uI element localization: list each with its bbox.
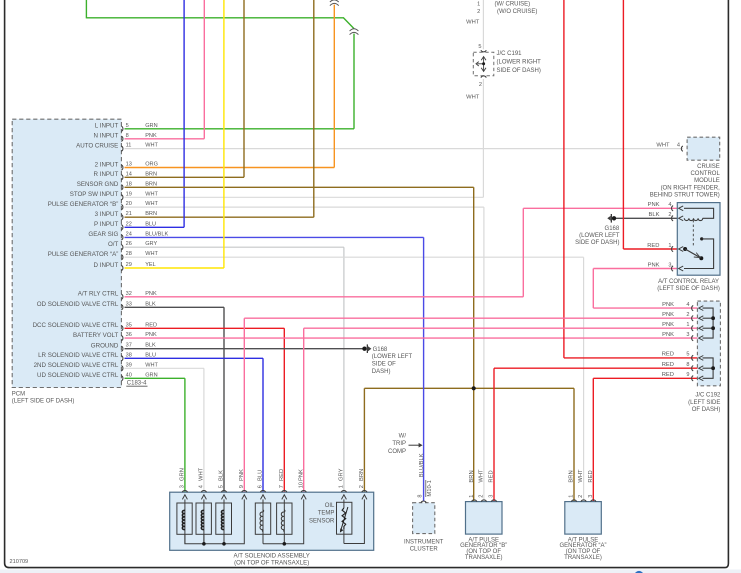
svg-text:O/T: O/T [108, 241, 119, 248]
svg-text:GRN: GRN [145, 372, 157, 378]
svg-text:4: 4 [668, 202, 671, 208]
instrument cluster label [404, 540, 444, 553]
svg-text:DASH): DASH) [372, 369, 391, 375]
wire PNK pin8 net (from top of page) [125, 0, 205, 139]
svg-text:5: 5 [686, 352, 689, 358]
svg-text:21: 21 [126, 211, 132, 217]
svg-text:BLK: BLK [145, 301, 156, 307]
svg-text:(LOWER LEFT: (LOWER LEFT [372, 354, 413, 360]
svg-text:33: 33 [126, 301, 132, 307]
svg-text:PNK: PNK [648, 202, 660, 208]
svg-text:2: 2 [479, 82, 482, 88]
svg-text:2: 2 [477, 9, 480, 15]
svg-text:19: 19 [126, 191, 132, 197]
solenoid assembly pin 7 RED [279, 469, 287, 500]
svg-text:1: 1 [668, 243, 671, 249]
svg-text:1: 1 [469, 495, 475, 498]
svg-text:PNK: PNK [145, 133, 157, 139]
J/C C192 pin 4 PNK [662, 302, 703, 311]
blue dot bottom edge [634, 571, 643, 573]
wire PNK J/C C192 pin1 to solenoid assembly pin10 [304, 328, 698, 491]
svg-text:1: 1 [477, 1, 480, 7]
svg-text:BLU: BLU [145, 352, 156, 358]
relay switch armature [683, 247, 703, 260]
svg-text:BEHIND STRUT TOWER): BEHIND STRUT TOWER) [650, 192, 720, 198]
solenoid assembly pin 10 PNK [298, 469, 306, 499]
cruise control module box [687, 137, 720, 160]
solenoid coil 1 (dark winding) [177, 499, 192, 543]
diagram number label 210709 [10, 559, 29, 565]
A/T pulse generator A box [565, 502, 602, 534]
pulse generator B pin 3 RED [489, 470, 497, 501]
svg-text:BRN: BRN [145, 171, 157, 177]
junction dot BRN sensor-ground [472, 386, 476, 390]
wire WHT pin28 net (to pulse generator A pin2) [125, 257, 584, 501]
PCM pin 40 UD SOLENOID VALVE CTRL [37, 372, 158, 381]
wire GRN pin40 net (to solenoid assembly pin3) [125, 378, 185, 491]
wire BRN pin18 sensor-ground net [125, 187, 575, 501]
svg-text:PNK: PNK [662, 322, 674, 328]
svg-text:37: 37 [126, 343, 132, 349]
svg-text:14: 14 [126, 171, 132, 177]
svg-text:RED: RED [279, 469, 285, 481]
svg-text:BLK: BLK [649, 212, 660, 218]
svg-text:4: 4 [686, 302, 689, 308]
svg-text:20: 20 [126, 201, 132, 207]
oil temp sensor label [309, 503, 335, 525]
svg-text:(LOWER LEFT: (LOWER LEFT [579, 233, 620, 239]
svg-text:PULSE GENERATOR “B”: PULSE GENERATOR “B” [48, 201, 119, 208]
svg-text:32: 32 [126, 291, 132, 297]
wire WHT pin39 net (to solenoid assembly pin4) [125, 368, 204, 491]
PCM pin 32 A/T RLY CTRL [78, 291, 157, 300]
svg-text:39: 39 [126, 362, 132, 368]
svg-text:RED: RED [662, 352, 674, 358]
wire BLK pin33 net (to solenoid assembly pin5) [125, 307, 225, 491]
svg-text:210709: 210709 [10, 559, 29, 565]
relay coil-to-switch dashed link [692, 220, 694, 247]
svg-text:W/: W/ [399, 434, 407, 440]
svg-text:PNK: PNK [298, 469, 304, 481]
svg-text:18: 18 [126, 181, 132, 187]
svg-text:WHT: WHT [145, 201, 158, 207]
svg-text:BLU/BLK: BLU/BLK [145, 231, 168, 237]
PCM pin 36 BATTERY VOLT [73, 332, 157, 341]
svg-text:WHT: WHT [479, 469, 485, 483]
svg-text:N INPUT: N INPUT [94, 133, 119, 140]
svg-text:PCM: PCM [12, 392, 25, 398]
svg-text:3: 3 [686, 332, 689, 338]
svg-text:OIL: OIL [325, 503, 335, 509]
svg-text:G168: G168 [373, 347, 388, 353]
svg-text:2: 2 [479, 495, 485, 498]
svg-text:WHT: WHT [145, 362, 158, 368]
svg-text:RED: RED [145, 322, 157, 328]
wire PNK relay pin3 to J/C C192 pin4 [593, 269, 698, 309]
wire YEL pin29 net (from top of page) [125, 0, 224, 268]
J/C C192 label [688, 393, 721, 413]
J/C C192 internal bus upper [703, 308, 715, 338]
svg-text:RED: RED [647, 243, 659, 249]
svg-text:3: 3 [588, 495, 594, 498]
svg-text:22: 22 [126, 221, 132, 227]
svg-text:WHT: WHT [656, 142, 670, 148]
wire BLU/BLK pin24 net (to instrument cluster) [125, 237, 424, 500]
wire RED pin35 net (to solenoid assembly pin7) [125, 328, 285, 491]
J/C C192 internal bus lower [703, 358, 715, 378]
svg-text:2: 2 [359, 485, 365, 488]
PCM pin 13 2 INPUT [95, 161, 158, 170]
svg-text:TRANSAXLE): TRANSAXLE) [465, 555, 503, 561]
solenoid coil 2 (dark winding) [196, 499, 211, 543]
ground G168 at PCM pin37 (lower left side of dash) [362, 344, 412, 374]
svg-text:29: 29 [126, 262, 132, 268]
svg-text:LR SOLENOID VALVE CTRL: LR SOLENOID VALVE CTRL [38, 352, 119, 359]
cruise control module label [650, 164, 721, 198]
svg-text:L INPUT: L INPUT [95, 123, 119, 130]
wire RED battery feed to J/C C192 pin5 [564, 0, 698, 358]
svg-text:BATTERY VOLT: BATTERY VOLT [73, 332, 118, 339]
svg-text:TRIP: TRIP [392, 441, 406, 447]
svg-text:5: 5 [478, 44, 481, 50]
A/T pulse generator A label [559, 537, 606, 560]
svg-text:GEAR SIG: GEAR SIG [88, 231, 118, 238]
svg-text:WHT: WHT [466, 19, 480, 25]
PCM pin 35 DCC SOLENOID VALVE CTRL [33, 322, 157, 331]
svg-text:9: 9 [239, 485, 245, 488]
svg-text:WHT: WHT [466, 94, 480, 100]
svg-text:5: 5 [219, 485, 225, 488]
svg-text:8: 8 [126, 133, 129, 139]
svg-text:J/C C191: J/C C191 [497, 51, 523, 57]
svg-text:(W/O CRUISE): (W/O CRUISE) [497, 9, 537, 15]
solenoid assembly pin 1 GRY [339, 468, 347, 499]
svg-text:RED: RED [588, 470, 594, 482]
svg-text:4: 4 [199, 485, 205, 488]
svg-text:PNK: PNK [662, 332, 674, 338]
svg-text:CLUSTER: CLUSTER [410, 547, 439, 553]
svg-text:J/C C192: J/C C192 [695, 393, 721, 399]
relay pin 2 BLK [649, 212, 684, 221]
svg-text:5: 5 [126, 123, 129, 129]
svg-text:2ND SOLENOID VALVE CTRL: 2ND SOLENOID VALVE CTRL [34, 362, 119, 369]
wire RED J/C C192 pin8 to pulse generator B pin3 [494, 368, 698, 501]
instrument cluster box [413, 503, 435, 534]
svg-text:(LEFT SIDE OF DASH): (LEFT SIDE OF DASH) [657, 286, 720, 292]
svg-text:(LEFT SIDE: (LEFT SIDE [688, 400, 720, 406]
svg-text:BLK: BLK [219, 470, 225, 481]
svg-text:RED: RED [662, 372, 674, 378]
svg-text:CONTROL: CONTROL [690, 171, 720, 177]
svg-text:PNK: PNK [145, 291, 157, 297]
pulse generator B pin 1 BRN [469, 470, 477, 501]
wire GRY pin26 net (to oil temp sensor) [125, 247, 344, 491]
svg-text:1: 1 [569, 495, 575, 498]
svg-text:BRN: BRN [145, 211, 157, 217]
svg-text:6: 6 [258, 485, 264, 488]
WHT label below C191 [466, 94, 480, 100]
solenoid assembly pin 6 BLU [258, 470, 266, 500]
PCM pin 21 3 INPUT [95, 211, 157, 220]
WHT label above C191 [466, 19, 480, 25]
solenoid coil 4 (open winding) [255, 499, 270, 543]
svg-text:M10-1: M10-1 [427, 480, 433, 496]
svg-text:C183-4: C183-4 [127, 381, 147, 387]
relay pin 3 PNK [648, 262, 684, 271]
PCM pin 20 PULSE GENERATOR “B” [48, 201, 159, 210]
J/C C191 label [497, 51, 542, 74]
wire BRN pin21 net (from top of page) [125, 0, 314, 217]
wire RED J/C C192 pin9 to pulse generator A pin3 [593, 378, 698, 501]
PCM pin 18 SENSOR GND [77, 181, 157, 190]
cruise control module pin4 [656, 142, 683, 151]
relay switch contact to pin3 [684, 237, 714, 268]
relay coil circuit [684, 208, 714, 220]
solenoid assembly pin 2 BRN [359, 469, 367, 500]
PCM pin 38 LR SOLENOID VALVE CTRL [38, 352, 156, 361]
svg-text:GROUND: GROUND [91, 343, 119, 350]
PCM pin 39 2ND SOLENOID VALVE CTRL [34, 362, 159, 371]
wire WHT stop lamp feed (top, through J/C C191) [482, 0, 484, 197]
PCM pin 22 P INPUT [94, 221, 156, 230]
J/C C191 internal arrows [476, 57, 486, 72]
svg-text:35: 35 [126, 322, 132, 328]
svg-text:WHT: WHT [145, 191, 158, 197]
svg-text:28: 28 [126, 251, 132, 257]
wire break symbol on GRN [350, 29, 359, 35]
wire BRN pin14 net (from top of page) [125, 0, 245, 177]
relay pin 4 PNK [648, 202, 684, 211]
wire BLK pin37 net (to ground G168) [125, 348, 363, 350]
oil temp sensor (thermistor) [337, 499, 365, 543]
wire break symbol on ORG [330, 0, 339, 6]
A/T pulse generator B box [466, 502, 503, 534]
svg-text:2: 2 [686, 312, 689, 318]
svg-text:BLK: BLK [145, 343, 156, 349]
svg-text:TEMP: TEMP [318, 511, 335, 517]
PCM pin 8 N INPUT [94, 133, 157, 142]
A/T solenoid assembly label [234, 553, 310, 567]
connector C183-4 label [126, 381, 147, 387]
svg-text:BLU: BLU [258, 470, 264, 481]
svg-text:UD SOLENOID VALVE CTRL: UD SOLENOID VALVE CTRL [37, 372, 119, 379]
svg-text:WHT: WHT [578, 469, 584, 483]
svg-text:SENSOR GND: SENSOR GND [77, 181, 119, 188]
PCM pin 33 OD SOLENOID VALVE CTRL [37, 301, 156, 310]
svg-text:1: 1 [686, 322, 689, 328]
wire id labels at top (W/ CRUISE) [477, 1, 537, 15]
J/C C192 pin 8 RED [662, 362, 704, 371]
J/C C191 entry bump pin5 [478, 44, 486, 52]
PCM pin 5 L INPUT [95, 123, 158, 132]
pulse generator A pin 1 BRN [569, 470, 577, 501]
svg-text:D INPUT: D INPUT [94, 262, 119, 269]
svg-text:ORG: ORG [145, 162, 158, 168]
svg-text:RED: RED [489, 470, 495, 482]
svg-text:GRY: GRY [145, 241, 157, 247]
wire BLU pin22 net (from top of page) [125, 0, 185, 227]
svg-text:BRN: BRN [359, 469, 365, 481]
J/C C192 pin 2 PNK [662, 312, 703, 321]
PCM label [12, 392, 75, 405]
svg-text:DCC SOLENOID VALVE CTRL: DCC SOLENOID VALVE CTRL [33, 322, 119, 329]
junction connector J/C C191 box [473, 52, 494, 76]
solenoid assembly pin 4 WHT [199, 467, 207, 499]
solenoid assembly pin 9 PNK [239, 469, 247, 499]
svg-text:2: 2 [668, 212, 671, 218]
svg-text:10: 10 [298, 482, 304, 488]
svg-text:8: 8 [686, 362, 689, 368]
wire PNK pin32 net (to A/T control relay pin4) [125, 208, 678, 296]
svg-text:PULSE GENERATOR “A”: PULSE GENERATOR “A” [48, 251, 119, 258]
PCM module box [12, 119, 121, 387]
A/T control relay box [677, 203, 720, 276]
PCM pin 26 O/T [108, 241, 158, 250]
solenoid assembly pin 5 BLK [219, 470, 227, 499]
wire BLU pin38 net (to solenoid assembly pin6) [125, 358, 264, 491]
svg-text:RED: RED [662, 362, 674, 368]
svg-text:BRN: BRN [569, 470, 575, 482]
svg-text:PNK: PNK [662, 312, 674, 318]
svg-text:A/T SOLENOID ASSEMBLY: A/T SOLENOID ASSEMBLY [234, 553, 310, 560]
svg-text:36: 36 [126, 332, 132, 338]
J/C C192 pin 1 PNK [662, 322, 703, 331]
PCM pin 24 GEAR SIG [88, 231, 168, 240]
W/ TRIP COMP note with arrow [388, 434, 423, 455]
svg-text:9: 9 [686, 372, 689, 378]
J/C C191 exit bump pin2 [479, 76, 486, 88]
svg-text:(LOWER RIGHT: (LOWER RIGHT [497, 60, 542, 66]
svg-text:SIDE OF: SIDE OF [372, 361, 396, 367]
PCM pin 37 GROUND [91, 343, 156, 352]
wire GRN pin5 net (to top of page) [86, 0, 354, 129]
svg-text:(ON RIGHT FENDER,: (ON RIGHT FENDER, [661, 185, 721, 191]
instrument cluster pin 8 / M10-1 [417, 453, 433, 502]
svg-text:11: 11 [126, 143, 132, 149]
svg-text:PNK: PNK [145, 332, 157, 338]
svg-text:3: 3 [668, 262, 671, 268]
J/C C192 pin 3 PNK [662, 332, 703, 341]
svg-text:SENSOR: SENSOR [309, 518, 335, 524]
svg-text:BRN: BRN [469, 470, 475, 482]
svg-text:INSTRUMENT: INSTRUMENT [404, 540, 444, 546]
svg-text:13: 13 [126, 162, 132, 168]
svg-text:8: 8 [417, 494, 423, 497]
svg-text:A/T RLY CTRL: A/T RLY CTRL [78, 291, 119, 298]
pulse generator B pin 2 WHT [479, 469, 487, 502]
svg-text:SIDE OF DASH): SIDE OF DASH) [497, 68, 541, 74]
svg-text:OF DASH): OF DASH) [692, 407, 721, 413]
svg-text:AUTO CRUISE: AUTO CRUISE [76, 142, 118, 149]
solenoid mid bus to pin10 [263, 499, 304, 545]
svg-text:SIDE OF DASH): SIDE OF DASH) [575, 240, 619, 246]
svg-text:(LEFT SIDE OF DASH): (LEFT SIDE OF DASH) [12, 398, 75, 404]
svg-text:STOP SW INPUT: STOP SW INPUT [70, 191, 119, 198]
svg-text:A/T CONTROL RELAY: A/T CONTROL RELAY [658, 279, 719, 285]
PCM pin 19 STOP SW INPUT [70, 191, 159, 200]
solenoid coil 5 (open winding) [277, 499, 292, 543]
pulse generator A pin 3 RED [588, 470, 596, 501]
svg-text:26: 26 [126, 241, 132, 247]
svg-text:COMP: COMP [388, 449, 406, 455]
PCM pin 28 PULSE GENERATOR “A” [48, 251, 159, 260]
wire WHT pin11 net (to cruise control module) [125, 148, 684, 150]
relay pin 1 RED [647, 243, 683, 252]
junction connector J/C C192 box [697, 301, 720, 386]
svg-text:WHT: WHT [199, 467, 205, 481]
pulse generator A pin 2 WHT [578, 469, 586, 502]
PCM pin 29 D INPUT [94, 262, 156, 271]
svg-text:CRUISE: CRUISE [697, 164, 720, 170]
wire PNK pin36 net (to J/C C192 pin3) [125, 337, 698, 339]
svg-text:PNK: PNK [662, 302, 674, 308]
svg-text:GRN: GRN [180, 468, 186, 481]
wire PNK J/C C192 pin2 to solenoid assembly pin9 [244, 318, 698, 491]
ground G168 at relay (lower left side of dash) [575, 214, 620, 246]
A/T solenoid assembly box [170, 492, 374, 550]
svg-text:G168: G168 [605, 226, 620, 232]
svg-text:(ON TOP OF TRANSAXLE): (ON TOP OF TRANSAXLE) [234, 560, 309, 567]
wire WHT pin20 net (to pulse generator B pin2) [125, 207, 484, 501]
solenoid coil 3 (dark winding) [216, 499, 232, 543]
J/C C192 pin 9 RED [662, 372, 704, 381]
svg-text:MODULE: MODULE [694, 178, 720, 184]
A/T pulse generator B label [460, 537, 507, 560]
PCM pin 14 R INPUT [94, 171, 157, 180]
svg-text:3 INPUT: 3 INPUT [95, 211, 119, 218]
wire RED battery feed to relay pin1 [623, 0, 677, 249]
svg-text:YEL: YEL [145, 262, 156, 268]
svg-text:3: 3 [489, 495, 495, 498]
svg-text:BLU/BLK: BLU/BLK [419, 453, 425, 477]
solenoid common bus to pin9 [185, 499, 244, 545]
svg-text:GRN: GRN [145, 123, 157, 129]
svg-text:PNK: PNK [239, 469, 245, 481]
solenoid assembly pin 3 GRN [180, 468, 188, 499]
svg-text:OD SOLENOID VALVE CTRL: OD SOLENOID VALVE CTRL [37, 301, 119, 308]
wire ORG pin13 net (to top of page) [125, 5, 335, 168]
svg-text:WHT: WHT [145, 143, 158, 149]
svg-text:GRY: GRY [339, 468, 345, 481]
PCM pin 11 AUTO CRUISE [76, 142, 158, 151]
svg-text:R INPUT: R INPUT [94, 171, 119, 178]
wire WHT pin19 net (to J/C C191) [125, 196, 484, 198]
A/T control relay label [657, 279, 720, 292]
svg-text:3: 3 [180, 485, 186, 488]
svg-text:(W/ CRUISE): (W/ CRUISE) [495, 1, 531, 7]
svg-text:24: 24 [126, 231, 132, 237]
svg-text:1: 1 [339, 485, 345, 488]
svg-text:40: 40 [126, 372, 132, 378]
svg-text:4: 4 [677, 142, 680, 148]
svg-text:TRANSAXLE): TRANSAXLE) [564, 555, 602, 561]
svg-text:7: 7 [279, 485, 285, 488]
svg-text:WHT: WHT [145, 251, 158, 257]
wire BLK relay pin2 to ground G168 [615, 217, 677, 219]
J/C C192 pin 5 RED [662, 352, 704, 361]
svg-text:P INPUT: P INPUT [94, 221, 119, 228]
svg-text:PNK: PNK [648, 262, 660, 268]
svg-text:2 INPUT: 2 INPUT [95, 161, 119, 168]
svg-text:2: 2 [578, 495, 584, 498]
svg-text:BLU: BLU [145, 221, 156, 227]
svg-text:38: 38 [126, 352, 132, 358]
svg-text:BRN: BRN [145, 181, 157, 187]
